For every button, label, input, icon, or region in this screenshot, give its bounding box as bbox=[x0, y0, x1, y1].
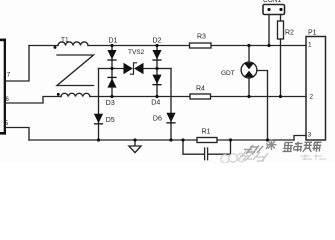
svg-text:1: 1 bbox=[308, 42, 312, 49]
T1 primary polarity dot bbox=[54, 46, 57, 49]
svg-text:D1: D1 bbox=[109, 38, 118, 45]
svg-text:R2: R2 bbox=[285, 30, 294, 37]
junction R2 middle bus bbox=[279, 95, 282, 98]
gas discharge tube GDT bbox=[248, 46, 250, 65]
resistor R4 bbox=[190, 94, 211, 99]
wire middle bus R4 to P1 bbox=[211, 96, 307, 98]
svg-text:D3: D3 bbox=[106, 100, 115, 107]
diode D2 bbox=[152, 50, 161, 61]
watermark ghost glyphs lower bbox=[238, 151, 268, 161]
wire middle bus bbox=[90, 96, 190, 98]
watermark star bbox=[266, 140, 277, 151]
diode D5 bbox=[94, 114, 103, 125]
svg-text:TVS2: TVS2 bbox=[128, 49, 145, 56]
pin 5 wire bbox=[6, 128, 29, 141]
junction C1 right ground bus bbox=[229, 138, 232, 141]
svg-text:3: 3 bbox=[308, 132, 312, 139]
svg-text:5: 5 bbox=[5, 120, 9, 127]
watermark circles bbox=[221, 153, 245, 163]
connector J left edge bar bbox=[0, 39, 6, 135]
junction D1 top bus bbox=[110, 44, 113, 47]
resistor R2 bbox=[278, 21, 284, 39]
diode branch D5 vertical bbox=[98, 69, 100, 141]
CON1 left leg bbox=[268, 15, 270, 46]
wire top bus R3 to P1 bbox=[211, 45, 306, 47]
watermark ghost text bottom right bbox=[300, 154, 326, 160]
watermark CJK text (faked strokes) bbox=[283, 142, 322, 153]
diode branch D2/D4 vertical bbox=[156, 46, 158, 97]
transformer T1 core Z stroke bbox=[57, 55, 94, 86]
diode D3 bbox=[107, 77, 116, 88]
pin 7 wire bbox=[6, 46, 29, 82]
diode D4 bbox=[152, 75, 161, 86]
capacitor parallel to R1 bbox=[183, 140, 231, 154]
diode D1 bbox=[107, 50, 116, 61]
svg-text:2: 2 bbox=[310, 94, 314, 101]
transformer T1 secondary winding bbox=[61, 93, 90, 96]
wire top bus left bbox=[29, 45, 58, 47]
wire top bus to R3 bbox=[88, 45, 190, 47]
wire ground bus left bbox=[29, 139, 197, 141]
svg-text:6: 6 bbox=[5, 96, 9, 103]
node A TVS left bbox=[110, 67, 113, 70]
svg-text:CON1: CON1 bbox=[263, 0, 281, 4]
wire node A to D5 bbox=[99, 68, 113, 70]
connector P1 bbox=[306, 37, 326, 141]
GDT third electrode wire bbox=[257, 71, 268, 141]
wire node B to D6 bbox=[157, 68, 171, 70]
T1 secondary polarity dot bbox=[57, 93, 60, 96]
watermark bbox=[221, 140, 326, 164]
junction ground symbol bbox=[133, 138, 136, 141]
svg-text:D4: D4 bbox=[151, 100, 160, 107]
junction D6 ground bus bbox=[169, 138, 172, 141]
svg-text:GDT: GDT bbox=[221, 70, 235, 77]
diode D6 bbox=[166, 113, 175, 124]
node B TVS right bbox=[155, 67, 158, 70]
GDT electrodes bbox=[244, 63, 254, 77]
junction GDT electrode ground bus bbox=[266, 138, 269, 141]
junction D5 ground bus bbox=[97, 138, 100, 141]
svg-text:P1: P1 bbox=[308, 30, 317, 37]
svg-text:D6: D6 bbox=[153, 116, 162, 123]
TVS2 bidirectional bbox=[112, 68, 157, 70]
resistor R1 bbox=[197, 138, 217, 143]
watermark scribble strokes bbox=[244, 145, 263, 155]
junction C1 left ground bus bbox=[181, 138, 184, 141]
diode branch D1/D3 vertical bbox=[111, 46, 113, 97]
junction D3 middle bus bbox=[110, 95, 113, 98]
svg-text:R1: R1 bbox=[202, 129, 211, 136]
ground bbox=[134, 140, 136, 146]
svg-text:D5: D5 bbox=[106, 117, 115, 124]
junction GDT middle bus bbox=[247, 95, 250, 98]
CON1 right leg bbox=[280, 15, 282, 22]
connector CON1 bbox=[263, 5, 285, 15]
wire ground bus right bbox=[217, 139, 294, 141]
transformer T1 primary winding bbox=[58, 42, 88, 46]
svg-text:T1: T1 bbox=[61, 37, 69, 44]
resistor R3 bbox=[190, 43, 212, 48]
R2 bottom lead bbox=[280, 39, 282, 97]
svg-text:D2: D2 bbox=[153, 38, 162, 45]
diode branch D6 vertical bbox=[170, 69, 172, 141]
wire P1 pin3 step bbox=[294, 136, 306, 141]
junction GDT top bus bbox=[247, 44, 250, 47]
svg-text:7: 7 bbox=[7, 72, 11, 79]
junction CON1 top bus bbox=[267, 44, 270, 47]
junction D2 top bus bbox=[155, 44, 158, 47]
svg-text:R4: R4 bbox=[196, 86, 205, 93]
pin 6 wire bbox=[6, 97, 61, 104]
junction D4 middle bus bbox=[155, 95, 158, 98]
svg-text:R3: R3 bbox=[197, 34, 206, 41]
